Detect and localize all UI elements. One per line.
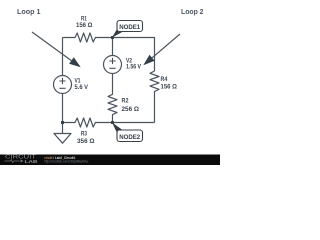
svg-text:Loop 2: Loop 2 xyxy=(181,9,204,16)
svg-text:156 Ω: 156 Ω xyxy=(76,22,93,29)
svg-text:NODE1: NODE1 xyxy=(119,24,140,31)
svg-text:R3: R3 xyxy=(81,130,87,137)
svg-text:356 Ω: 356 Ω xyxy=(77,138,95,145)
svg-text:http://circuitlab.com/c/28p39f: http://circuitlab.com/c/28p39fwytl0su xyxy=(44,159,88,163)
svg-text:NODE2: NODE2 xyxy=(119,134,140,141)
svg-text:1.56 V: 1.56 V xyxy=(126,64,142,71)
svg-text:R2: R2 xyxy=(122,98,129,105)
svg-text:5.6 V: 5.6 V xyxy=(75,84,89,91)
svg-text:156 Ω: 156 Ω xyxy=(161,84,177,91)
svg-text:R4: R4 xyxy=(161,76,168,83)
svg-text:LAB: LAB xyxy=(25,159,39,165)
svg-text:256 Ω: 256 Ω xyxy=(122,106,140,113)
svg-text:Loop 1: Loop 1 xyxy=(17,9,41,16)
